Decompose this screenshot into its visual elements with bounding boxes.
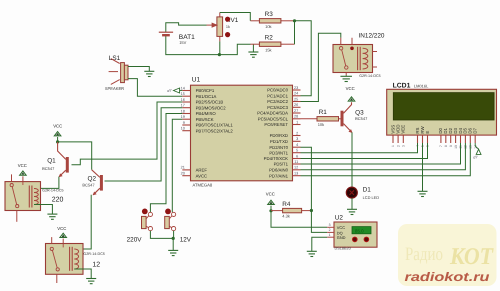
ground below buttons	[168, 249, 178, 251]
relay IN12/220 switch contact	[339, 47, 342, 50]
svg-text:VCC: VCC	[57, 226, 66, 231]
svg-text:PB1/OC1A: PB1/OC1A	[196, 94, 217, 99]
svg-text:BC547: BC547	[355, 116, 368, 121]
node buttons common junction	[172, 237, 175, 240]
ground below lcd RW	[418, 190, 428, 192]
lcd pin D6 (13)	[469, 135, 471, 143]
svg-text:R3: R3	[265, 11, 274, 18]
svg-text:G2R-14-DC5: G2R-14-DC5	[42, 188, 64, 192]
wire divider junction to PC1	[295, 21, 312, 96]
svg-text:PD6/AIN0: PD6/AIN0	[269, 167, 289, 172]
pin PC6/RESET (1)	[293, 124, 301, 126]
relay RL1 coil	[28, 186, 30, 208]
pin PD3/INT1 (5)	[293, 152, 301, 154]
button 220V	[142, 209, 148, 215]
pin PC5/ADC5/SCL (28)	[293, 118, 301, 120]
pin PB6/TOSC1/XTAL1 (9)	[182, 124, 190, 126]
pin PB0/ICP1 (14)	[182, 90, 190, 92]
svg-text:PD5/T1: PD5/T1	[274, 162, 289, 167]
lcd pin D3 (10)	[455, 135, 457, 143]
svg-text:G2R-14-DC5: G2R-14-DC5	[359, 74, 381, 78]
wire buttons common to ground	[150, 231, 173, 239]
svg-text:VCC: VCC	[266, 191, 275, 196]
wire D1 to ground	[351, 198, 353, 209]
svg-text:D1: D1	[363, 186, 372, 193]
svg-text:LM016L: LM016L	[414, 84, 429, 89]
svg-text:18: 18	[181, 109, 185, 113]
svg-text:PD2/INT0: PD2/INT0	[269, 145, 288, 150]
svg-text:PD1/TXD: PD1/TXD	[270, 139, 288, 144]
wire lcd RS to PD3	[301, 143, 418, 153]
svg-text:1: 1	[391, 145, 395, 147]
ground at speaker	[144, 70, 154, 72]
svg-text:27: 27	[294, 109, 298, 113]
potentiometer RV1	[219, 13, 221, 17]
U2 indicator dots	[353, 237, 358, 242]
svg-text:1k: 1k	[226, 25, 230, 29]
watermark radiokot background	[398, 224, 497, 286]
relay IN12/220 coil	[357, 47, 359, 70]
svg-text:ATMEGA8: ATMEGA8	[193, 183, 213, 188]
terminal d7 at PB0	[174, 88, 180, 93]
lcd pin RW (5)	[422, 135, 424, 143]
svg-text:12V: 12V	[180, 237, 192, 244]
wire lcd E to PD4	[301, 143, 428, 159]
pin PC3/ADC3 (26)	[293, 106, 301, 108]
lcd pin D2 (9)	[450, 135, 452, 143]
lcd pin D5 (12)	[464, 135, 466, 143]
pin PD4/T0/XCK (6)	[293, 158, 301, 160]
svg-text:Q1: Q1	[47, 158, 56, 165]
lcd pin D7 (14)	[474, 135, 476, 143]
node R3-R2 junction	[293, 19, 296, 22]
transistor Q3	[341, 111, 344, 127]
svg-text:AREF: AREF	[196, 168, 208, 173]
pin PB1/OC1A (15)	[182, 95, 190, 97]
svg-text:9: 9	[449, 145, 453, 147]
svg-text:25: 25	[294, 97, 298, 101]
wire PD2 to R4 junction to DQ	[301, 147, 328, 232]
wire rail to R2 left	[219, 44, 250, 54]
svg-text:10k: 10k	[265, 24, 271, 29]
resistor R1	[301, 118, 318, 120]
U2 display	[352, 227, 371, 234]
svg-text:VCC: VCC	[53, 123, 62, 128]
svg-text:PB2/SS/OC1B: PB2/SS/OC1B	[196, 100, 224, 105]
terminal d7 at lcd D7	[474, 143, 476, 146]
relay RL2 body	[46, 244, 84, 275]
svg-text:3: 3	[402, 145, 406, 147]
pin PD6/AIN0 (12)	[293, 169, 301, 171]
svg-text:PC4/ADC4/SDA: PC4/ADC4/SDA	[257, 111, 288, 116]
svg-text:U1: U1	[192, 77, 201, 84]
wire Q2 emitter to relay coil	[74, 195, 91, 249]
svg-text:5: 5	[296, 149, 298, 153]
wire U2 GND to ground	[312, 237, 327, 251]
svg-text:Q2: Q2	[88, 175, 97, 182]
svg-text:9: 9	[183, 121, 185, 125]
ground below U2 GND	[307, 250, 317, 252]
svg-text:26: 26	[294, 103, 298, 107]
svg-text:Радио: Радио	[405, 244, 443, 265]
svg-text:21: 21	[181, 166, 185, 170]
svg-text:1: 1	[296, 120, 298, 124]
svg-text:R2: R2	[265, 35, 274, 42]
relay RL2 coil	[69, 247, 71, 271]
svg-text:17: 17	[181, 104, 185, 108]
svg-text:12: 12	[92, 262, 100, 269]
svg-text:11: 11	[294, 160, 298, 164]
svg-text:PB7/TOSC2/XTAL2: PB7/TOSC2/XTAL2	[196, 128, 234, 133]
lcd pin VDD (2)	[397, 135, 399, 143]
wire lcd RW to ground	[422, 143, 424, 191]
wire PB3 to Q2 base	[105, 108, 183, 181]
svg-text:DS18B20: DS18B20	[335, 247, 351, 251]
relay RL2 pins	[51, 237, 53, 243]
svg-text:PB3/MOSI/OC2: PB3/MOSI/OC2	[196, 105, 227, 110]
lcd pin RS (4)	[417, 135, 419, 143]
svg-text:1: 1	[329, 233, 331, 237]
wire battery negative to bottom rail	[166, 36, 220, 55]
svg-text:GND: GND	[337, 235, 346, 240]
pin PB7/TOSC2/XTAL2 (10)	[182, 130, 190, 132]
ground relay IN12/220 common	[345, 75, 347, 76]
svg-text:10: 10	[181, 127, 185, 131]
svg-text:4.3k: 4.3k	[282, 213, 290, 218]
wire battery positive to RV1 wiper	[166, 23, 207, 32]
svg-text:VCC: VCC	[18, 163, 27, 168]
svg-text:85.0: 85.0	[355, 229, 364, 234]
node Q1 collector junction	[56, 140, 59, 143]
wire RV1 bottom to rail	[219, 41, 221, 54]
svg-text:7: 7	[439, 145, 443, 147]
relay RL1 pins	[11, 174, 13, 181]
svg-text:LCD LED: LCD LED	[363, 195, 380, 200]
svg-text:220: 220	[52, 196, 64, 203]
svg-text:BC547: BC547	[42, 166, 55, 171]
svg-text:10: 10	[454, 145, 458, 149]
pin PB2/SS/OC1B (16)	[182, 101, 190, 103]
LED D1	[346, 187, 357, 198]
lcd pin D0 (7)	[440, 135, 442, 143]
relay IN12/220 pins	[340, 38, 342, 45]
pin PC1/ADC1 (24)	[293, 95, 301, 97]
svg-text:PD7/AIN1: PD7/AIN1	[269, 173, 289, 178]
svg-text:PD0/RXD: PD0/RXD	[270, 133, 288, 138]
svg-text:PD4/T0/XCK: PD4/T0/XCK	[264, 156, 288, 161]
lcd screen	[393, 93, 494, 120]
svg-text:2: 2	[396, 145, 400, 147]
sensor U2 DS18B20 body	[334, 222, 377, 247]
svg-text:24: 24	[294, 92, 298, 96]
pin AVCC (20)	[182, 175, 190, 177]
wire PB2 to Q1 base	[72, 102, 183, 165]
svg-text:VCC: VCC	[346, 86, 355, 91]
svg-text:radiokot.ru: radiokot.ru	[405, 270, 490, 284]
svg-text:BC547: BC547	[82, 183, 95, 188]
ground relay RL1	[47, 213, 57, 215]
lcd pin VEE (3)	[402, 135, 404, 143]
relay RL1 body	[5, 182, 41, 211]
wire speaker bottom to PB1	[128, 79, 182, 97]
svg-text:R4: R4	[282, 201, 291, 208]
svg-text:U2: U2	[335, 214, 344, 221]
svg-text:G2R-14-DC5: G2R-14-DC5	[83, 252, 105, 256]
pin PC0/ADC0 (23)	[293, 89, 301, 91]
relay RL2 switch contact	[50, 247, 53, 250]
lcd pin D1 (8)	[445, 135, 447, 143]
svg-text:220V: 220V	[127, 237, 143, 244]
wire PB5 to button 12V	[172, 119, 182, 212]
wire RV1 top to R3	[220, 13, 251, 21]
svg-text:12: 12	[294, 166, 298, 170]
pin PD7/AIN1 (13)	[293, 175, 301, 177]
RV1 adjust dot bottom	[225, 32, 230, 37]
svg-text:PD3/INT1: PD3/INT1	[269, 150, 288, 155]
svg-text:20: 20	[181, 172, 185, 176]
transistor Q2	[100, 175, 103, 191]
svg-text:3: 3	[296, 137, 298, 141]
pin PD0/RXD (2)	[293, 135, 301, 137]
wire relay contact to PC2	[301, 33, 341, 101]
relay RL1 switch contact	[10, 184, 13, 187]
resistor R4	[271, 210, 283, 212]
svg-text:14: 14	[181, 86, 185, 90]
svg-text:КОТ: КОТ	[449, 244, 494, 270]
svg-text:IN12/220: IN12/220	[359, 33, 385, 40]
svg-text:PC5/ADC5/SCL: PC5/ADC5/SCL	[258, 116, 289, 121]
svg-text:23: 23	[294, 86, 298, 90]
mcu U1 body	[191, 85, 293, 181]
svg-text:PB0/ICP1: PB0/ICP1	[196, 88, 215, 93]
transistor Q1	[66, 157, 69, 173]
wire relay RL2 coil bottom to ground	[74, 269, 91, 279]
svg-text:13: 13	[294, 172, 298, 176]
ground at R2 left	[252, 44, 254, 52]
lcd pin E (6)	[427, 135, 429, 143]
svg-text:LCD1: LCD1	[393, 82, 411, 89]
resistor R2	[250, 43, 259, 45]
lcd pin D4 (11)	[460, 135, 462, 143]
wire VCC junction to Q2 collector	[58, 142, 92, 170]
node VCC R4 junction	[269, 209, 272, 212]
lcd LCD1 body	[387, 89, 497, 135]
svg-text:PB5/SCK: PB5/SCK	[196, 117, 214, 122]
svg-text:6: 6	[296, 154, 298, 158]
svg-text:4: 4	[296, 143, 298, 147]
svg-text:PC1/ADC1: PC1/ADC1	[267, 93, 288, 98]
svg-text:10k: 10k	[318, 122, 324, 127]
svg-text:19: 19	[181, 115, 185, 119]
wire lcd D4 to PD5	[301, 143, 461, 164]
svg-text:PC2/ADC2: PC2/ADC2	[267, 99, 288, 104]
wire R2 right up to R3 junction	[294, 21, 296, 44]
svg-text:2: 2	[329, 228, 331, 232]
wire lcd D5 to PD6	[301, 143, 466, 170]
svg-text:PB6/TOSC1/XTAL1: PB6/TOSC1/XTAL1	[196, 123, 234, 128]
svg-text:PB4/MISO: PB4/MISO	[196, 111, 217, 116]
pin PB4/MISO (18)	[182, 113, 190, 115]
svg-text:D7: D7	[473, 127, 478, 133]
relay IN12/220 body	[333, 45, 373, 73]
pin PB3/MOSI/OC2 (17)	[182, 107, 190, 109]
resistor R3	[250, 20, 259, 22]
svg-text:PC6/RESET: PC6/RESET	[264, 122, 288, 127]
node R4 right junction	[310, 209, 313, 212]
svg-text:15V: 15V	[179, 40, 186, 45]
svg-text:3: 3	[329, 223, 331, 227]
button 12V	[165, 209, 171, 215]
pin PB5/SCK (19)	[182, 118, 190, 120]
pin PD2/INT0 (4)	[293, 146, 301, 148]
wire speaker top to ground	[128, 67, 149, 72]
wire lcd D6 to PD7	[301, 143, 471, 176]
U2 pins	[327, 226, 334, 228]
svg-text:15k: 15k	[265, 47, 271, 52]
wire PB4 to button 220V	[150, 114, 182, 213]
svg-text:VEE: VEE	[401, 125, 406, 134]
wire relay RL1 coil bottom to ground	[34, 205, 52, 215]
pin PC2/ADC2 (25)	[293, 101, 301, 103]
pin AREF (21)	[182, 169, 190, 171]
wire VCC to U2 VCC pin	[271, 211, 327, 227]
wire Q3 emitter to D1	[351, 132, 353, 187]
svg-text:PC0/ADC0: PC0/ADC0	[267, 88, 288, 93]
svg-text:2: 2	[296, 131, 298, 135]
svg-text:AVCC: AVCC	[196, 173, 208, 178]
svg-text:8: 8	[444, 145, 448, 147]
svg-text:16: 16	[181, 98, 185, 102]
ground below D1	[347, 208, 357, 210]
pin PD5/T1 (11)	[293, 163, 301, 165]
RV1 adjust dot top	[225, 17, 230, 22]
svg-text:R1: R1	[319, 109, 328, 116]
svg-text:28: 28	[294, 115, 298, 119]
svg-text:E: E	[425, 131, 430, 134]
svg-text:PC3/ADC3: PC3/ADC3	[267, 105, 288, 110]
wire Q1 emitter to relay coil	[34, 177, 59, 189]
pin PD1/TXD (3)	[293, 140, 301, 142]
battery BAT1	[159, 31, 173, 33]
svg-text:15: 15	[181, 92, 185, 96]
ground relay RL2	[86, 278, 96, 280]
pin PC4/ADC4/SDA (27)	[293, 112, 301, 114]
node RV1 bottom junction	[218, 53, 221, 56]
lcd pin VSS (1)	[392, 135, 394, 143]
svg-text:SPEAKER: SPEAKER	[105, 86, 124, 91]
